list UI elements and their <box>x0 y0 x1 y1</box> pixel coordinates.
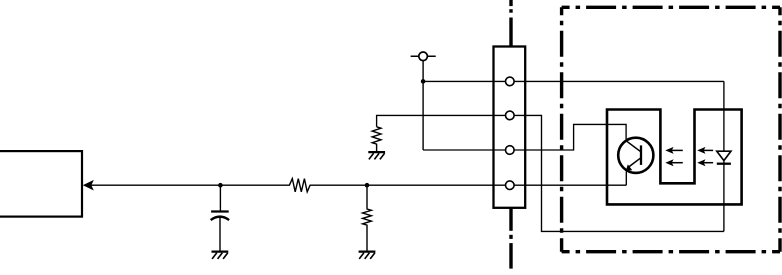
LED D1 cathode bar <box>717 163 731 165</box>
optocoupler package outline <box>607 110 742 205</box>
connector pin 1 <box>506 77 515 86</box>
ground G2 <box>359 252 376 259</box>
light arrow 1 <box>665 147 683 154</box>
ECU box <box>0 151 82 217</box>
LED D1 wire (anode to cathode run) <box>723 81 725 231</box>
capacitor C1 top plate <box>211 210 229 212</box>
wire phototransistor emitter to pin4 row <box>625 172 627 186</box>
wire pin2 row from R3 top, loop to LED cathode <box>377 115 724 231</box>
Q1 base bar <box>640 145 642 165</box>
light arrow 3 <box>697 147 713 154</box>
node C (terminal junction) <box>421 79 426 84</box>
capacitor C1 curved plate <box>211 217 229 220</box>
wire from terminal down to pin3 row <box>422 61 424 150</box>
LED D1 triangle <box>717 151 731 160</box>
capacitor C1 lead <box>219 185 221 210</box>
centerline upper <box>509 0 512 46</box>
resistor R2 (to ground) <box>363 185 372 250</box>
wire main signal line with series resistor <box>85 179 627 192</box>
ground G1 <box>212 252 229 259</box>
connector pin 4 <box>506 181 515 190</box>
resistor R3 (pull-down) <box>372 127 381 151</box>
node B (resistor junction) <box>365 183 370 188</box>
wire pin1 row to LED <box>423 80 724 82</box>
Q1 emitter line <box>629 158 641 167</box>
ground G3 <box>368 152 385 159</box>
connector pin 3 <box>506 146 515 155</box>
dash-dot boundary box <box>562 7 780 251</box>
terminal circle T1 stubs <box>411 55 436 57</box>
Q1 emitter arrowhead <box>626 164 632 170</box>
connector J1 <box>494 47 526 208</box>
Q1 collector line <box>626 141 641 152</box>
node A (cap junction) <box>218 183 223 188</box>
centerline lower <box>509 209 512 269</box>
phototransistor Q1 <box>618 138 653 173</box>
light arrow 2 <box>665 159 683 166</box>
capacitor C1 lower lead <box>219 218 221 251</box>
arrowhead into ECU <box>84 181 94 190</box>
wire pin3 row to phototransistor collector <box>423 124 626 150</box>
connector pin 2 <box>506 111 515 120</box>
light arrow 4 <box>697 159 713 166</box>
terminal circle T1 <box>419 52 428 61</box>
